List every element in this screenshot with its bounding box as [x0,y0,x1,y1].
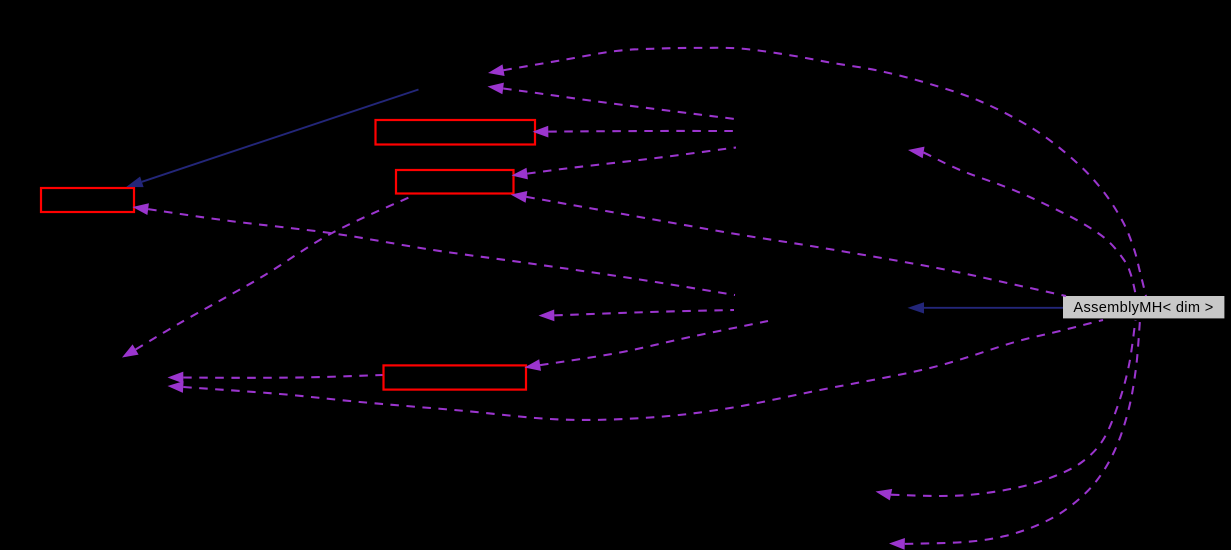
node box C [41,188,134,212]
edge l: box D to bottom-left node [168,372,383,384]
edge k: right node to box D [525,321,769,371]
edge c: mid node to box A [533,126,736,138]
edge a: AssemblyMH to top-left node [488,48,1146,296]
blue inheritance edge to box C [126,90,418,188]
blue inheritance edge from AssemblyMH [908,302,1064,313]
edge e: AssemblyMH to box B bottom [511,191,1066,296]
edge h: right node to box C [133,203,736,295]
node box D [384,365,527,389]
edge b: mid node to top-left node [488,83,736,119]
edge n: AssemblyMH to bottom node 1 [876,320,1136,500]
node box A [376,120,536,145]
edge o: AssemblyMH to bottom node 2 [889,320,1140,550]
edge g: box B to bottom-left node [122,196,413,358]
node AssemblyMH< dim > [1063,296,1224,318]
edge f: AssemblyMH to middle-right node [908,147,1136,296]
edge i: right node to centre node [539,310,735,322]
edge m: AssemblyMH bottom sweep to bottom-left node [168,320,1104,420]
edge d: mid node to box B top [512,148,737,180]
node box B [396,170,514,194]
svg-text:AssemblyMH< dim >: AssemblyMH< dim > [1073,300,1213,316]
